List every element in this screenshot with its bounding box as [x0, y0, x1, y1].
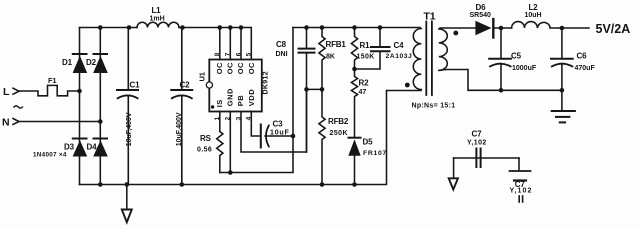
junction top rail pin7	[228, 25, 233, 30]
svg-text:4: 4	[246, 116, 253, 120]
svg-text:Y,102: Y,102	[467, 140, 487, 147]
svg-text:250K: 250K	[330, 130, 349, 137]
wire divider connector	[307, 88, 323, 90]
svg-text:150K: 150K	[357, 53, 375, 60]
svg-text:T1: T1	[424, 11, 436, 23]
wire pin6 stub	[240, 28, 242, 60]
svg-text:D4: D4	[87, 143, 98, 152]
junction N/bridge right	[98, 119, 103, 124]
svg-text:OC: OC	[215, 62, 224, 74]
capacitor C6	[551, 28, 573, 90]
junction right rail RFB1	[320, 25, 325, 30]
junction top rail C2	[180, 25, 185, 30]
transformer T1 primary winding	[413, 29, 421, 90]
svg-text:2: 2	[225, 116, 232, 120]
svg-text:PB: PB	[236, 95, 245, 107]
node primary phase dot	[405, 83, 410, 88]
svg-text:L: L	[3, 86, 10, 98]
junction top rail D2	[98, 25, 103, 30]
diode D5	[348, 138, 360, 185]
wire bridge left column	[79, 28, 81, 185]
svg-text:3: 3	[235, 116, 242, 120]
svg-text:47: 47	[359, 89, 367, 96]
svg-text:Np:Ns= 15:1: Np:Ns= 15:1	[412, 102, 456, 109]
capacitor C8	[299, 28, 315, 153]
junction bottom rail D5	[352, 182, 357, 187]
wire bottom rail	[80, 91, 422, 185]
svg-text:D1: D1	[62, 58, 73, 67]
capacitor C7 wire	[454, 157, 519, 159]
svg-text:2A103J: 2A103J	[386, 53, 413, 60]
op-amp U1 IC body DK912	[209, 60, 261, 112]
svg-text:C8: C8	[276, 40, 287, 49]
svg-text:VDD: VDD	[247, 89, 256, 106]
junction right rail R1	[352, 25, 357, 30]
wire pin7 stub	[229, 28, 231, 60]
svg-text:L2: L2	[529, 3, 539, 12]
svg-text:D3: D3	[64, 143, 75, 152]
svg-text:C4: C4	[394, 41, 405, 50]
junction L-fuse/bridge left	[77, 89, 82, 94]
wire N to bridge	[19, 121, 100, 123]
resistor R1	[351, 28, 357, 70]
capacitor C4	[355, 28, 390, 70]
svg-text:10uF: 10uF	[270, 130, 290, 137]
ground arrow C7	[449, 158, 458, 190]
capacitor C3	[261, 125, 293, 148]
capacitor C7 plates	[476, 149, 480, 168]
wire secondary top to D6	[440, 27, 475, 29]
svg-text:L1: L1	[152, 6, 162, 15]
capacitor C2	[171, 28, 192, 185]
svg-text:DNI: DNI	[276, 51, 288, 58]
junction output gnd C5	[499, 88, 504, 93]
wire top rail after L1	[179, 28, 251, 60]
ground arrow primary	[126, 185, 128, 210]
svg-text:OC: OC	[247, 62, 256, 74]
svg-text:RFB1: RFB1	[326, 40, 347, 49]
svg-text:C3: C3	[273, 120, 284, 129]
svg-text:C1: C1	[130, 81, 141, 90]
inductor L1	[137, 22, 179, 27]
svg-text:1: 1	[214, 116, 221, 120]
resistor R2	[351, 69, 357, 137]
junction bottom rail D4	[98, 182, 103, 187]
junction bottom rail C2	[180, 182, 185, 187]
junction output rail C5	[499, 26, 504, 31]
resistor RFB1	[319, 28, 325, 90]
svg-text:D2: D2	[86, 58, 97, 67]
svg-text:C2: C2	[180, 81, 191, 90]
ground earth output	[552, 90, 575, 122]
wire top rail left	[80, 27, 138, 29]
svg-text:IS: IS	[215, 99, 224, 107]
svg-text:DK912: DK912	[262, 71, 269, 95]
junction C3 out	[291, 134, 296, 139]
svg-text:C6: C6	[577, 52, 588, 61]
wire pin3 PB to divider	[241, 89, 307, 152]
wire pin4 VDD to C3	[251, 112, 259, 137]
svg-text:D6: D6	[476, 3, 487, 12]
diode D6	[475, 19, 511, 38]
junction right rail C8	[304, 25, 309, 30]
capacitor C7b Y-cap to chassis	[510, 158, 531, 202]
pin1 circle marker	[206, 82, 212, 88]
diode D3	[73, 139, 88, 157]
svg-text:GND: GND	[226, 88, 235, 106]
svg-text:RS: RS	[200, 134, 212, 143]
svg-text:10uF,400V: 10uF,400V	[176, 112, 183, 146]
svg-text:0.56: 0.56	[197, 147, 212, 154]
wire VDD-gnd loop vertical x293	[220, 28, 293, 173]
svg-text:C7: C7	[472, 130, 483, 139]
diode D4	[93, 139, 108, 157]
svg-text:U1: U1	[198, 72, 207, 81]
node N input terminal	[13, 119, 19, 125]
junction pin2 GND	[228, 170, 233, 175]
svg-text:RFB2: RFB2	[328, 117, 349, 126]
capacitor C1	[117, 28, 138, 185]
wire secondary bottom	[440, 70, 562, 91]
junction output rail C6	[560, 26, 565, 31]
wire top rail right	[293, 27, 420, 29]
junction right rail C4	[378, 25, 383, 30]
wire pin8 stub	[219, 28, 221, 60]
svg-text:1000uF: 1000uF	[512, 65, 537, 72]
junction top rail pin8	[218, 25, 223, 30]
junction divider RFB1/RFB2	[320, 87, 325, 92]
svg-text:1N4007 ×4: 1N4007 ×4	[33, 152, 67, 159]
svg-text:8K: 8K	[326, 53, 335, 60]
inductor L2	[512, 22, 551, 28]
fuse F1	[19, 85, 80, 95]
svg-text:N: N	[2, 117, 9, 129]
capacitor C5	[489, 28, 511, 90]
resistor RS	[217, 112, 223, 173]
node secondary phase dot	[453, 31, 458, 36]
svg-text:5: 5	[246, 52, 253, 56]
wire output	[550, 27, 589, 29]
junction bottom rail RFB2	[320, 182, 325, 187]
junction output gnd C6	[560, 88, 565, 93]
svg-text:F1: F1	[48, 76, 56, 85]
svg-text:5V/2A: 5V/2A	[596, 22, 631, 36]
junction top rail pin6	[239, 25, 244, 30]
transformer core	[425, 22, 427, 96]
transformer T1 secondary winding	[439, 29, 448, 70]
svg-text:D5: D5	[363, 137, 374, 146]
svg-text:FR107: FR107	[363, 150, 387, 157]
wire bridge right column	[99, 28, 101, 185]
node ~ label	[14, 106, 24, 108]
junction divider C8	[304, 87, 309, 92]
svg-text:6: 6	[235, 52, 242, 56]
svg-text:1mH: 1mH	[150, 16, 165, 23]
svg-text:R2: R2	[359, 79, 370, 88]
junction R1/R2/C4	[352, 67, 357, 72]
node L input terminal	[13, 88, 19, 94]
svg-text:7: 7	[225, 52, 232, 56]
diode D1	[73, 54, 88, 73]
wire pin2 GND	[229, 112, 231, 173]
svg-text:OC: OC	[226, 62, 235, 74]
svg-text:10uF,400V: 10uF,400V	[126, 112, 133, 146]
resistor RFB2	[319, 89, 325, 184]
svg-text:OC: OC	[236, 62, 245, 74]
diode D2	[93, 54, 108, 73]
svg-text:R1: R1	[360, 41, 371, 50]
svg-text:8: 8	[214, 52, 221, 56]
svg-text:SR540: SR540	[470, 12, 492, 19]
svg-text:10uH: 10uH	[525, 12, 542, 19]
svg-text:C5: C5	[511, 52, 522, 61]
junction top rail C1	[127, 25, 132, 30]
junction bottom rail ground/C1	[125, 182, 130, 187]
svg-text:470uF: 470uF	[575, 65, 596, 72]
svg-text:Y,102: Y,102	[510, 188, 533, 195]
